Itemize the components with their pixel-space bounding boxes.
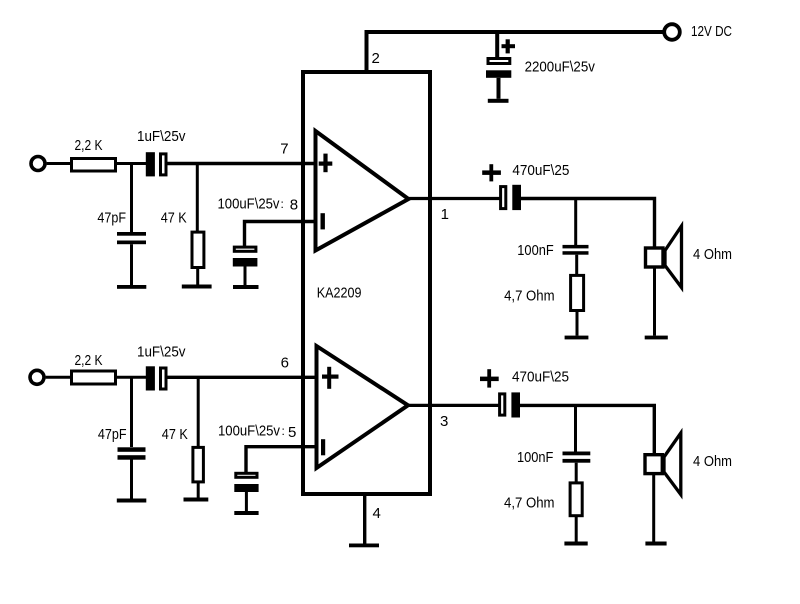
ground for LS2 bbox=[645, 542, 666, 546]
speaker LS2 horn bbox=[664, 433, 681, 495]
wire C1 to op-amp pin 7 bbox=[168, 162, 318, 165]
svg-text:4 Ohm: 4 Ohm bbox=[693, 453, 732, 470]
capacitor C4 470uF plus polarity mark bbox=[482, 164, 501, 181]
wire C5 to R3 bbox=[575, 255, 578, 275]
wire C3 to ground bbox=[244, 267, 247, 286]
speaker LS2 magnet box bbox=[645, 455, 662, 474]
wire C9 to ground bbox=[245, 492, 248, 511]
wire R5 to ground bbox=[197, 482, 200, 498]
capacitor C7 stem to ground bbox=[497, 78, 501, 99]
capacitor C10 470uF plus polarity mark bbox=[480, 369, 499, 387]
wire R6 to ground bbox=[575, 516, 578, 542]
svg-text:47pF: 47pF bbox=[97, 210, 126, 227]
svg-text:1: 1 bbox=[441, 206, 449, 223]
svg-text:470uF\25: 470uF\25 bbox=[512, 162, 569, 179]
resistor R4 2,2 K bbox=[72, 371, 116, 384]
wire node down to C8 47pF bbox=[130, 377, 133, 447]
svg-text:4,7 Ohm: 4,7 Ohm bbox=[504, 494, 555, 511]
wire R4 to C6 bbox=[117, 376, 146, 379]
svg-text::: : bbox=[281, 197, 284, 211]
ground for R6 bbox=[564, 542, 587, 546]
svg-text:7: 7 bbox=[280, 140, 288, 157]
capacitor C6 1uF negative plate bbox=[146, 366, 155, 390]
wire node down to C2 47pF bbox=[130, 164, 133, 233]
svg-text:2200uF\25v: 2200uF\25v bbox=[525, 59, 596, 76]
op-amp U1A plus mark bbox=[319, 154, 333, 173]
wire LS1 to ground bbox=[653, 267, 656, 336]
svg-text:47 K: 47 K bbox=[162, 426, 188, 443]
capacitor C4 470uF positive plate bbox=[501, 187, 506, 209]
svg-text:8: 8 bbox=[290, 197, 298, 214]
capacitor C11 100nF bottom plate bbox=[563, 459, 591, 463]
svg-text::: : bbox=[282, 424, 285, 438]
wire op-amp output pin 3 to C10 bbox=[408, 404, 501, 407]
ground for C9 bbox=[234, 511, 258, 515]
op-amp U1A minus mark bbox=[321, 213, 325, 229]
wire node down to C5 100nF bbox=[574, 199, 577, 246]
resistor R5 47 K bbox=[193, 447, 204, 482]
wire supply rail from pin 2 to 12V terminal bbox=[367, 32, 664, 72]
capacitor C8 47pF bottom plate bbox=[118, 455, 146, 460]
capacitor C8 47pF top plate bbox=[118, 447, 146, 452]
op-amp U1B triangle bbox=[317, 346, 409, 468]
capacitor C1 1uF negative plate bbox=[146, 152, 155, 176]
svg-text:6: 6 bbox=[281, 355, 289, 372]
capacitor C6 1uF positive plate bbox=[161, 368, 167, 389]
wire J2 to R4 bbox=[46, 376, 71, 379]
svg-text:3: 3 bbox=[440, 413, 448, 430]
capacitor C3 100uF top plate bbox=[234, 247, 256, 251]
op-amp U1B plus mark bbox=[322, 367, 339, 389]
capacitor C7 top plate bbox=[488, 59, 510, 64]
wire R1 to C1 bbox=[117, 162, 146, 165]
ground for C2 bbox=[117, 285, 146, 289]
resistor R6 4,7 Ohm bbox=[570, 483, 582, 516]
resistor R1 2,2 K bbox=[72, 159, 116, 172]
input terminal J1 bbox=[31, 157, 45, 171]
capacitor C1 1uF positive plate bbox=[161, 154, 167, 175]
wire C4 to speaker branch bbox=[521, 199, 655, 249]
speaker LS1 horn bbox=[665, 226, 682, 288]
svg-text:470uF\25: 470uF\25 bbox=[512, 369, 569, 386]
ground for LS1 bbox=[645, 336, 668, 340]
ground for R5 bbox=[184, 498, 209, 502]
ground for C8 bbox=[117, 499, 147, 503]
svg-text:4: 4 bbox=[373, 505, 381, 522]
ground for R2 bbox=[182, 285, 212, 289]
terminal 12V DC bbox=[664, 24, 680, 40]
wire op-amp output pin 1 to C4 bbox=[409, 197, 501, 200]
ground for C7 bbox=[488, 99, 509, 103]
svg-text:47pF: 47pF bbox=[98, 426, 127, 443]
svg-text:4,7 Ohm: 4,7 Ohm bbox=[504, 288, 554, 305]
capacitor C7 plus polarity mark bbox=[502, 39, 516, 53]
capacitor C10 470uF positive plate bbox=[500, 394, 505, 415]
input terminal J2 bbox=[30, 370, 44, 384]
ground for pin 4 bbox=[349, 544, 379, 548]
wire node down to R2 47K bbox=[196, 164, 199, 233]
wire C2 to ground bbox=[130, 244, 133, 285]
capacitor C2 47pF bottom plate bbox=[117, 241, 146, 245]
svg-text:5: 5 bbox=[288, 424, 296, 441]
capacitor C7 bottom plate bbox=[486, 70, 511, 78]
svg-text:100nF: 100nF bbox=[517, 449, 553, 466]
svg-text:4 Ohm: 4 Ohm bbox=[693, 246, 732, 263]
wire C8 to ground bbox=[130, 459, 133, 498]
wire node down to R5 47K bbox=[197, 377, 200, 447]
capacitor C5 100nF bottom plate bbox=[563, 251, 589, 255]
svg-text:100nF: 100nF bbox=[517, 242, 553, 259]
wire C11 to R6 bbox=[575, 463, 578, 482]
op-amp U1A triangle bbox=[316, 131, 409, 251]
op-amp U1B minus mark bbox=[321, 439, 325, 455]
speaker LS1 magnet box bbox=[646, 248, 664, 267]
wire R2 to ground bbox=[196, 268, 199, 285]
capacitor C9 100uF bottom plate bbox=[234, 484, 258, 492]
svg-text:2,2 K: 2,2 K bbox=[75, 352, 103, 369]
capacitor C2 47pF top plate bbox=[117, 232, 146, 236]
svg-text:47 K: 47 K bbox=[161, 210, 187, 227]
ground for C3 bbox=[233, 285, 259, 289]
capacitor C9 100uF top plate bbox=[236, 473, 257, 477]
svg-text:12V DC: 12V DC bbox=[691, 23, 732, 40]
wire pin 4 to ground bbox=[363, 494, 366, 544]
svg-text:100uF\25v: 100uF\25v bbox=[218, 196, 280, 213]
capacitor C3 100uF bottom plate bbox=[233, 258, 258, 267]
wire C10 to speaker branch bbox=[520, 405, 654, 454]
svg-text:2,2 K: 2,2 K bbox=[75, 137, 103, 154]
IC U1 KA2209 box bbox=[303, 72, 430, 494]
wire C6 to op-amp pin 6 bbox=[168, 376, 319, 379]
capacitor C4 470uF negative plate bbox=[512, 185, 521, 210]
ground for R3 bbox=[565, 336, 589, 340]
svg-text:100uF\25v: 100uF\25v bbox=[218, 423, 280, 440]
svg-text:2: 2 bbox=[372, 50, 380, 67]
wire node down to C11 100nF bbox=[574, 405, 577, 451]
capacitor C5 100nF top plate bbox=[563, 245, 589, 249]
resistor R3 4,7 Ohm bbox=[571, 275, 584, 310]
svg-text:1uF\25v: 1uF\25v bbox=[137, 343, 186, 360]
capacitor C7 2200uF supply: wire from rail bbox=[495, 32, 499, 58]
wire pin 5 from C9 to op-amp inverting input bbox=[246, 447, 318, 472]
capacitor C11 100nF top plate bbox=[563, 452, 591, 456]
resistor R2 47 K bbox=[192, 232, 204, 267]
svg-text:1uF\25v: 1uF\25v bbox=[137, 128, 186, 145]
capacitor C10 470uF negative plate bbox=[511, 392, 520, 417]
wire pin 8 from C3 to op-amp inverting input bbox=[245, 222, 318, 247]
wire R3 to ground bbox=[576, 311, 579, 336]
svg-text:KA2209: KA2209 bbox=[317, 285, 362, 302]
wire LS2 to ground bbox=[652, 474, 655, 542]
wire J1 to R1 bbox=[47, 162, 71, 165]
